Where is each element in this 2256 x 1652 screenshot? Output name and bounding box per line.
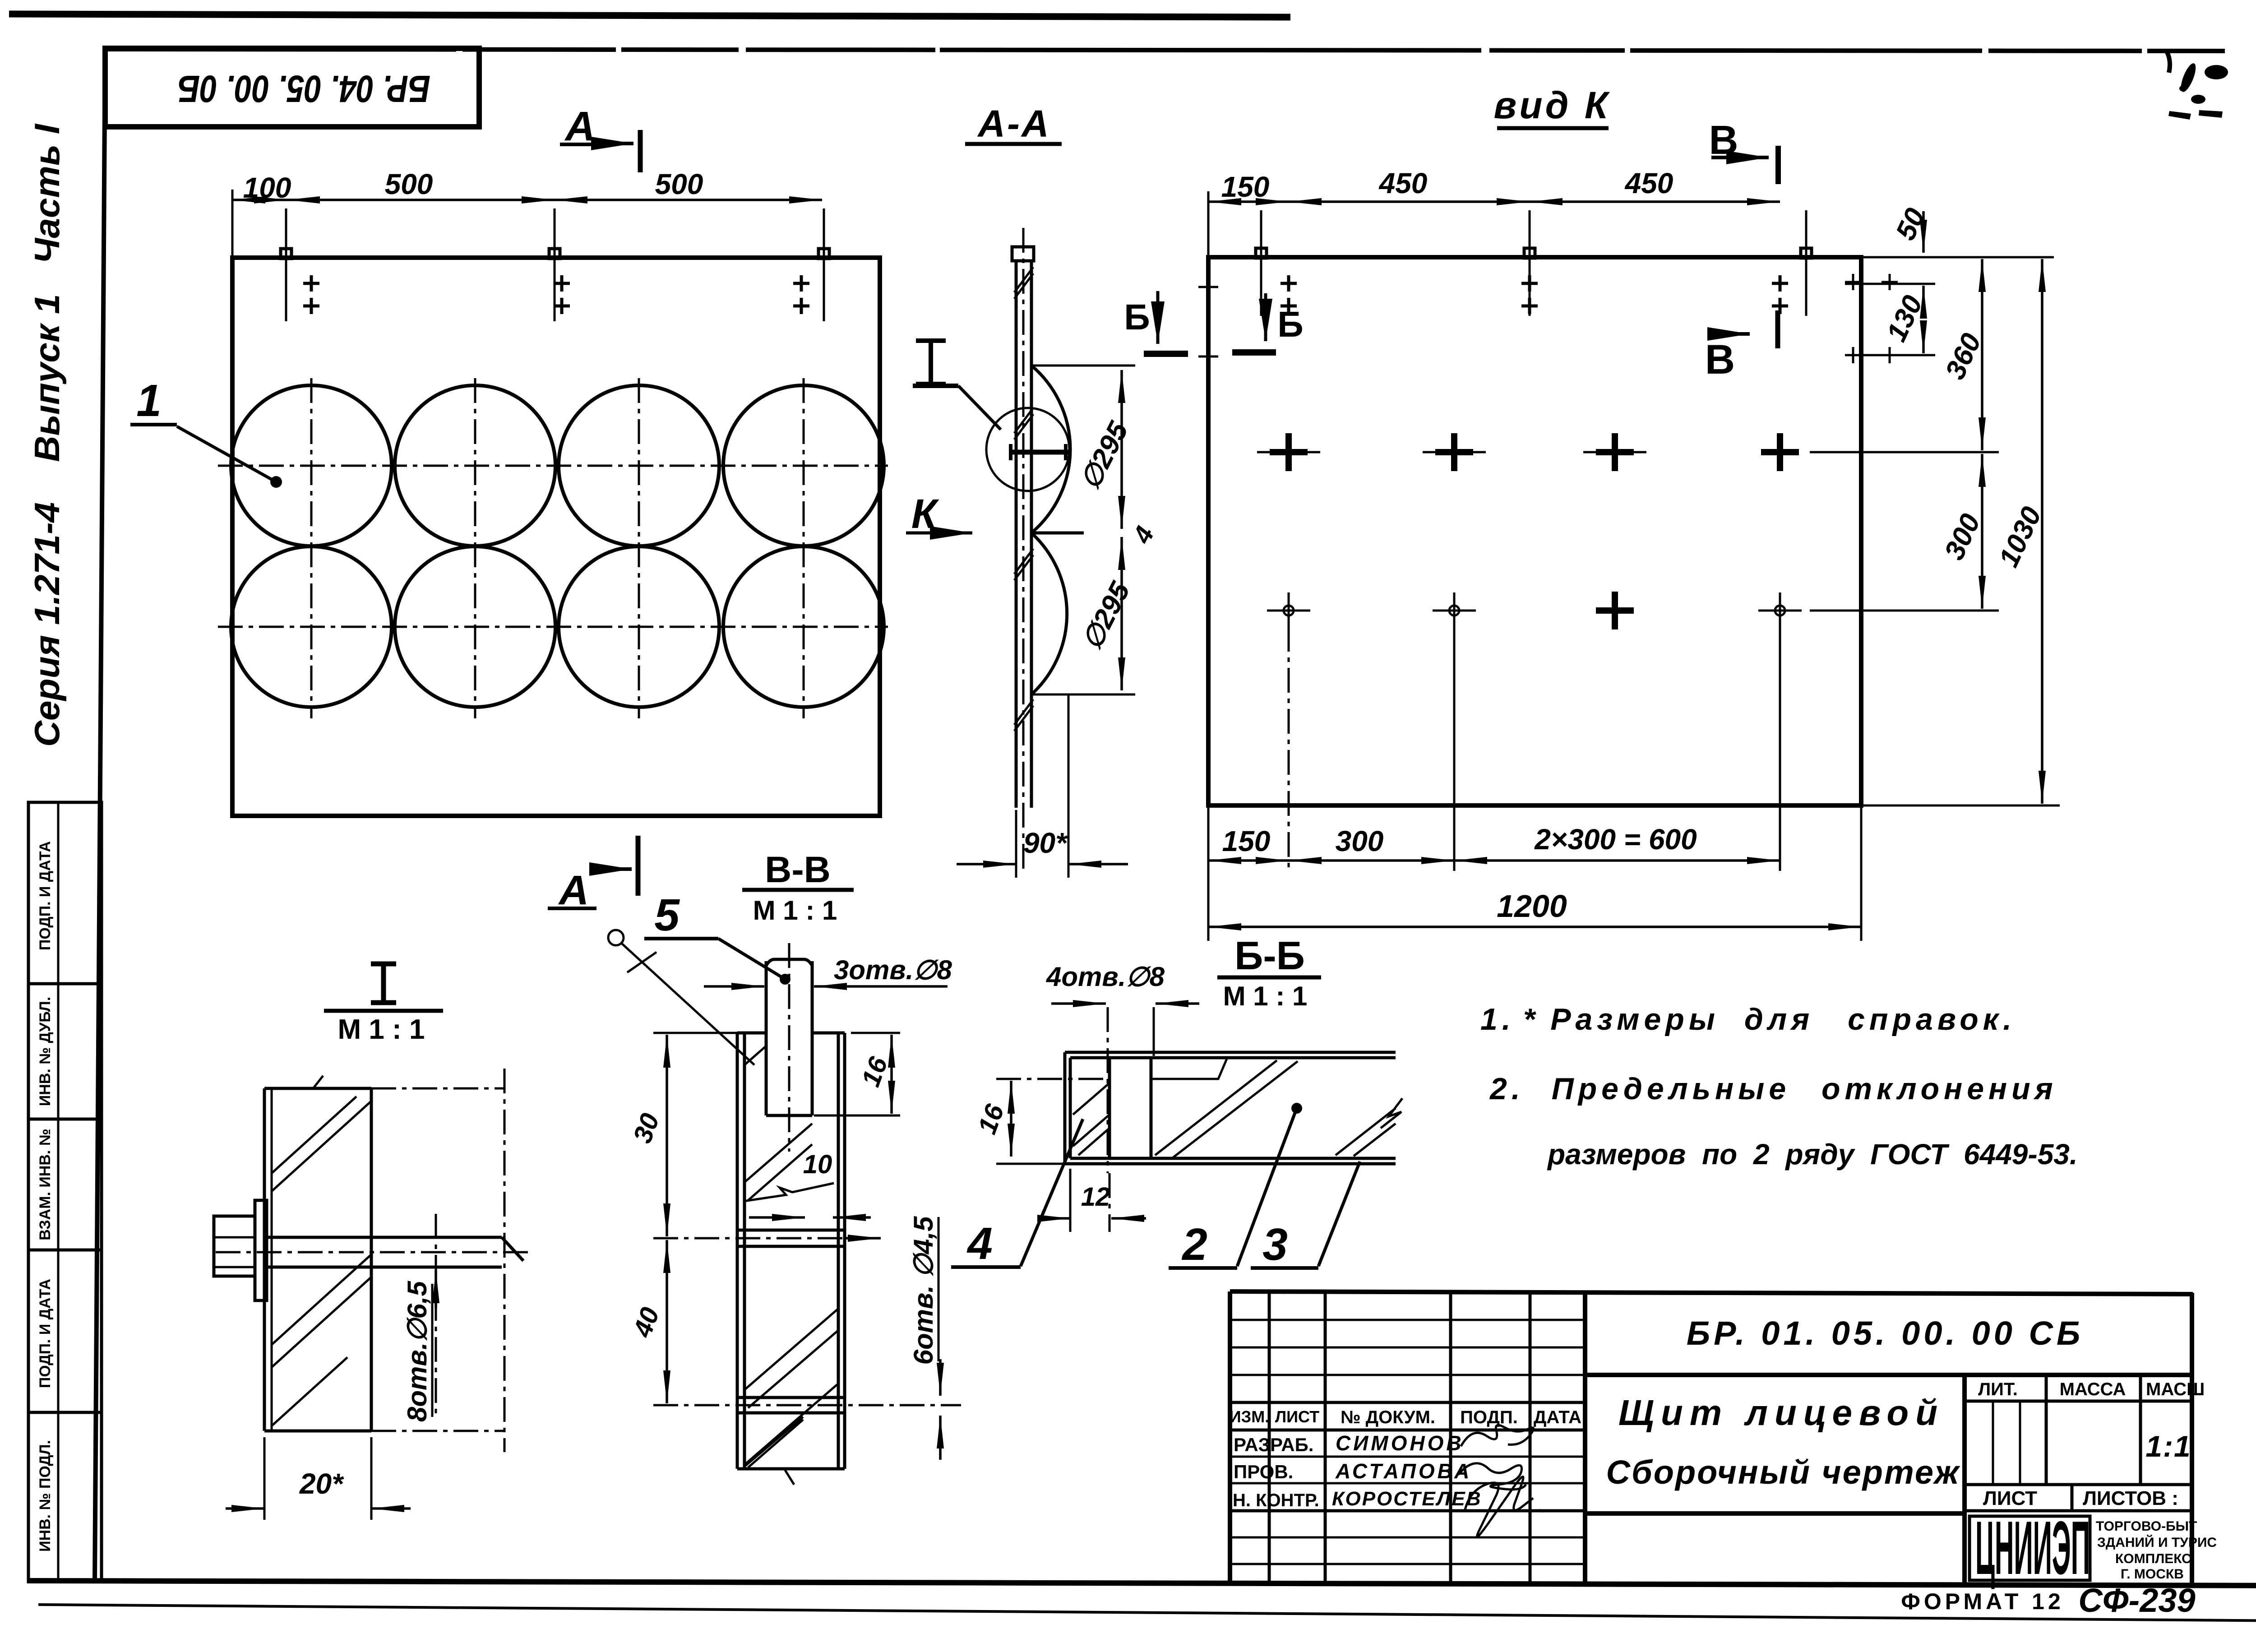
extension line left <box>231 190 234 258</box>
item 5 underline <box>644 937 718 940</box>
plate centerline <box>1022 228 1025 871</box>
svg-text:ПОДП. И ДАТА: ПОДП. И ДАТА <box>37 1279 54 1388</box>
margin table column divider <box>57 802 60 1582</box>
panel outline <box>232 258 880 816</box>
svg-text:6отв. ∅4,5: 6отв. ∅4,5 <box>908 1216 938 1365</box>
plate left face <box>1015 261 1018 808</box>
dia 295 text 1 <box>1074 416 1135 495</box>
circle r2c3 <box>559 546 719 707</box>
hole cross r2c4 <box>1758 592 1802 629</box>
tab centerline 2 <box>1529 210 1531 316</box>
board top tick <box>313 1076 323 1088</box>
row1 centerline far extension <box>1810 451 1999 453</box>
bottom extension col1 edge <box>1207 805 1210 941</box>
stud right wall <box>811 961 814 1115</box>
extension down col1 <box>1288 627 1290 871</box>
plate hatch tick 1 <box>1014 267 1033 299</box>
4otv dim arrows <box>1051 1002 1106 1005</box>
svg-text:В-В: В-В <box>765 849 831 890</box>
bar bottom tick <box>785 1470 794 1485</box>
paper bottom edge line <box>38 1605 2256 1621</box>
plate hatch tick 4 <box>1014 699 1033 731</box>
bar left wall <box>737 1033 744 1469</box>
detail I leader <box>913 384 958 388</box>
hatch below batten2 <box>744 1384 838 1467</box>
line under doc number <box>1585 1373 2193 1377</box>
svg-text:СФ-239: СФ-239 <box>2078 1582 2195 1619</box>
sphere arc 1 <box>1031 366 1070 533</box>
svg-text:3: 3 <box>1262 1219 1288 1270</box>
svg-text:размеров по 2 ряду ГОСТ 6449-5: размеров по 2 ряду ГОСТ 6449-53. <box>1547 1138 2078 1171</box>
horizontal centerline row 2 <box>218 626 888 628</box>
margin label podp i data 2 <box>37 1279 54 1388</box>
svg-text:МАСШ: МАСШ <box>2146 1379 2205 1399</box>
tab 2 <box>1524 248 1535 258</box>
title underline <box>965 142 1062 146</box>
circle r1c4 <box>723 385 884 546</box>
svg-text:А: А <box>558 867 589 913</box>
bolt shaft break <box>502 1237 523 1261</box>
dim 16b text <box>972 1100 1010 1138</box>
svg-text:А-А: А-А <box>977 102 1050 145</box>
dim 50 arrow <box>1922 211 1925 253</box>
svg-text:ЗДАНИЙ И ТУРИС: ЗДАНИЙ И ТУРИС <box>2097 1535 2217 1550</box>
stud left wall <box>765 961 768 1115</box>
svg-text:500: 500 <box>655 168 703 200</box>
extension down col4 <box>1779 627 1781 871</box>
tab 3 <box>1801 248 1812 258</box>
top-left stamp box <box>105 48 479 127</box>
svg-text:ЛИСТОВ :: ЛИСТОВ : <box>2083 1487 2178 1509</box>
dim 1200 line <box>1208 925 1861 928</box>
svg-text:150: 150 <box>1221 171 1270 203</box>
top dim line 150/450/450 <box>1208 200 1289 203</box>
cross pair 1 <box>303 275 319 314</box>
margin stamp table <box>28 802 102 1582</box>
stud top <box>766 959 812 966</box>
dim 1030 line <box>2041 259 2043 804</box>
batten 2 lines <box>737 1397 845 1413</box>
svg-text:90*: 90* <box>1023 827 1068 859</box>
edge cross right top <box>1845 274 1861 290</box>
edge cross outer low <box>1882 347 1898 363</box>
board inner face <box>370 1088 373 1431</box>
svg-text:БР. 04. 05. 00. 0Б: БР. 04. 05. 00. 0Б <box>178 68 430 110</box>
plate right face <box>1030 261 1033 808</box>
line under title name <box>1585 1511 1965 1516</box>
stud bottom <box>766 1114 812 1117</box>
bar hatch main <box>1155 1060 1396 1157</box>
arc bottom extension <box>1031 694 1135 696</box>
mounting tab 2 <box>549 249 560 259</box>
item 4 underline <box>951 1265 1021 1269</box>
circle r1c3 <box>559 385 719 546</box>
svg-text:20*: 20* <box>299 1467 344 1500</box>
plate hatch tick 3 <box>1014 549 1033 580</box>
svg-text:вид К: вид К <box>1494 84 1611 126</box>
svg-text:ПОДП. И ДАТА: ПОДП. И ДАТА <box>37 841 54 950</box>
hole cross r1c4 <box>1761 433 1799 471</box>
gap 4 label <box>1127 522 1160 548</box>
svg-text:300: 300 <box>1336 825 1384 857</box>
svg-text:4: 4 <box>966 1218 993 1269</box>
paper top edge scan line <box>9 14 1290 17</box>
plate top cap <box>1012 247 1034 261</box>
item 2 leader <box>1237 1108 1297 1266</box>
cross pair k2 <box>1521 275 1538 314</box>
mounting tab 3 <box>818 249 829 259</box>
dim 6otv label <box>908 1216 938 1365</box>
svg-text:ТОРГОВО-БЫТ: ТОРГОВО-БЫТ <box>2096 1519 2197 1534</box>
frame left border <box>95 47 105 1582</box>
dim 50 text <box>1890 204 1932 245</box>
detail I label underline <box>324 1009 443 1013</box>
dim 40 line <box>666 1240 668 1403</box>
svg-text:А: А <box>564 103 595 149</box>
svg-text:ИНВ. № ПОДЛ.: ИНВ. № ПОДЛ. <box>37 1440 54 1552</box>
hole cross r2c1 <box>1267 592 1310 629</box>
glue mark cross <box>627 952 656 972</box>
item 4 leader <box>1021 1119 1083 1266</box>
svg-text:БР. 01. 05. 00. 00 СБ: БР. 01. 05. 00. 00 СБ <box>1687 1314 2084 1352</box>
bolt washer <box>255 1200 267 1300</box>
dim 30 line <box>666 1035 668 1236</box>
frame bottom border <box>27 1581 2256 1586</box>
svg-text:1200: 1200 <box>1497 888 1567 924</box>
dim 20 extension lines <box>264 1437 266 1520</box>
dim 16 text <box>856 1053 893 1091</box>
bar left end <box>1065 1052 1070 1164</box>
hole centerline <box>435 1214 437 1417</box>
margin table row dividers <box>28 982 102 986</box>
bolt shaft top <box>268 1236 502 1239</box>
dim 20 arrows <box>226 1507 264 1510</box>
board bottom edge <box>264 1430 371 1433</box>
svg-text:1:1: 1:1 <box>2145 1430 2191 1463</box>
svg-text:8отв.∅6,5: 8отв.∅6,5 <box>402 1280 432 1422</box>
wavy leader 10 <box>744 1183 834 1201</box>
svg-text:Б: Б <box>1277 304 1304 344</box>
lit subcell dividers <box>1992 1401 1994 1485</box>
item 1 leader <box>177 426 276 482</box>
signatures <box>1461 1425 1534 1446</box>
tab centerline 1 <box>1260 210 1262 316</box>
svg-text:4отв.∅8: 4отв.∅8 <box>1046 962 1165 992</box>
cross pair k3 <box>1772 275 1788 314</box>
dim 90 extension left <box>1015 810 1017 878</box>
dim 12 ext lines <box>1069 1169 1072 1232</box>
horizontal centerline row 1 <box>218 465 888 467</box>
dim 12 arrows <box>1038 1217 1070 1220</box>
svg-text:СИМОНОВ: СИМОНОВ <box>1336 1431 1464 1455</box>
dim 1030 text <box>1993 502 2048 572</box>
dim 40 text <box>628 1304 665 1342</box>
margin label podp i data 1 <box>37 841 54 950</box>
logo letters <box>1975 1505 2090 1590</box>
svg-text:450: 450 <box>1624 167 1674 199</box>
dim 130 line <box>1922 286 1925 316</box>
hole cross r1c1 <box>1270 433 1308 471</box>
bar hatch upper <box>744 1046 812 1200</box>
dim 300 text <box>1938 509 1986 565</box>
title underline <box>742 888 854 892</box>
dim 130 text <box>1881 291 1928 346</box>
title block top border <box>1230 1291 2193 1294</box>
plate outline <box>1208 257 1861 805</box>
circle r2c1 <box>231 546 392 707</box>
tab centerline 3 <box>1805 210 1808 316</box>
hole cross r1c2 <box>1435 433 1473 471</box>
item 1 underline <box>130 423 177 426</box>
dim 16b line <box>1010 1081 1012 1157</box>
title block right border <box>2190 1293 2194 1584</box>
bolt shaft bottom <box>268 1266 502 1269</box>
glue mark leader <box>608 930 624 945</box>
margin label inv n dubl <box>37 997 54 1106</box>
svg-text:М 1 : 1: М 1 : 1 <box>753 895 837 925</box>
arc top extension <box>1031 365 1135 367</box>
svg-text:5: 5 <box>654 890 680 940</box>
circle r1c1 <box>231 385 392 546</box>
bar bottom edge <box>737 1467 845 1471</box>
top dim extension left <box>1207 191 1210 257</box>
extension down col2 <box>1453 627 1456 871</box>
lit massa massh header row line <box>1965 1400 2192 1403</box>
left table col lines <box>1268 1291 1271 1583</box>
item 3 leader <box>1318 1161 1360 1266</box>
edge cross outer top <box>1882 274 1898 290</box>
mounting tab 1 <box>281 249 291 259</box>
svg-text:12: 12 <box>1081 1182 1110 1212</box>
right centerline <box>504 1069 506 1452</box>
extension right edge down <box>1860 805 1863 941</box>
ref line 629 <box>1845 283 1935 285</box>
svg-text:Щит лицевой: Щит лицевой <box>1618 1393 1944 1433</box>
bolt axis centerline <box>216 1251 530 1254</box>
svg-text:Г. МОСКВ: Г. МОСКВ <box>2121 1567 2184 1582</box>
vertical centerline col 3 <box>638 378 640 718</box>
list listov divider <box>2071 1485 2074 1511</box>
batten 1 centerline <box>653 1237 875 1240</box>
bar right wall <box>838 1033 845 1469</box>
bar bottom edge <box>1065 1158 1396 1164</box>
dim 10 arrows <box>749 1216 805 1219</box>
logo box <box>1969 1516 2090 1580</box>
svg-text:2.Предельные отклонения: 2.Предельные отклонения <box>1489 1072 2057 1106</box>
bar hatch lower <box>744 1309 838 1467</box>
svg-text:ФОРМАТ 12: ФОРМАТ 12 <box>1901 1589 2064 1614</box>
bolt bar <box>1010 450 1068 455</box>
left strip hatch <box>1073 1083 1110 1155</box>
svg-text:ПОДП.: ПОДП. <box>1460 1407 1518 1427</box>
bar right break <box>1381 1098 1402 1128</box>
hole dim arrow <box>435 1270 437 1309</box>
svg-text:М 1 : 1: М 1 : 1 <box>1223 981 1308 1011</box>
dim 16 ext line <box>996 1078 1110 1080</box>
svg-text:10: 10 <box>803 1150 832 1179</box>
right section left border <box>1962 1375 1967 1583</box>
hole block left <box>1108 1058 1111 1158</box>
dim 16 line <box>890 1035 893 1114</box>
plate hatch tick 2 <box>1014 408 1033 440</box>
svg-text:ЛИТ.: ЛИТ. <box>1978 1379 2018 1399</box>
item 5 leader <box>718 939 785 979</box>
margin label inv n podl <box>37 1440 54 1552</box>
cross pair 2 <box>554 275 570 314</box>
cusp line <box>1031 532 1084 535</box>
left table row lines <box>1230 1319 1585 1321</box>
item 2 underline <box>1169 1266 1237 1270</box>
bar top edge <box>1065 1052 1396 1058</box>
margin label vzam inv <box>37 1129 54 1240</box>
tab centerline 3 <box>823 208 825 321</box>
list row bottom <box>1965 1509 2192 1513</box>
hole cross r2c2 <box>1433 592 1476 629</box>
stud centerline <box>788 943 791 1152</box>
dim 90 arrows <box>957 863 1016 865</box>
cross pair 3 <box>793 275 809 314</box>
board top edge <box>264 1087 371 1090</box>
board hatch <box>272 1097 371 1426</box>
svg-text:1.*Размеры для справок.: 1.*Размеры для справок. <box>1480 1002 2016 1037</box>
hole step line <box>1151 1058 1227 1079</box>
cross pair k1 <box>1281 275 1297 314</box>
stud dim arrows <box>704 985 764 988</box>
svg-text:ЛИСТ: ЛИСТ <box>1275 1407 1319 1426</box>
svg-text:2×300 = 600: 2×300 = 600 <box>1534 823 1697 856</box>
dim 360 line <box>1981 259 1983 450</box>
edge cross right low <box>1845 347 1861 363</box>
tab centerline 1 <box>285 208 287 321</box>
dim 300 line <box>1981 454 1983 609</box>
dim 30 text <box>628 1110 665 1147</box>
svg-text:ДАТА: ДАТА <box>1534 1407 1581 1427</box>
vertical centerline col 2 <box>474 378 476 718</box>
batten 1 lines <box>737 1230 845 1246</box>
view K title underline <box>1497 126 1609 130</box>
frame top border <box>104 49 2225 51</box>
svg-text:К: К <box>911 491 939 537</box>
dim 90 extension right <box>1068 694 1070 878</box>
left table outer left <box>1228 1291 1232 1583</box>
bolt head <box>214 1216 255 1276</box>
bottom edge extension dashed <box>371 1430 504 1432</box>
lit massa divider <box>2045 1375 2048 1485</box>
detail I label <box>371 964 396 1003</box>
svg-text:ВЗАМ. ИНВ. №: ВЗАМ. ИНВ. № <box>37 1129 54 1240</box>
svg-text:3отв.∅8: 3отв.∅8 <box>834 955 952 985</box>
svg-text:РАЗРАБ.: РАЗРАБ. <box>1234 1434 1313 1455</box>
edge cross left top <box>1198 277 1218 297</box>
svg-text:МАССА: МАССА <box>2060 1379 2126 1399</box>
plate bottom extension right <box>1862 805 2060 807</box>
hole centerline vertical <box>1107 1007 1109 1173</box>
list row line <box>1965 1483 2192 1486</box>
big cell divider <box>1583 1291 1587 1583</box>
svg-text:500: 500 <box>385 168 433 200</box>
circle r2c4 <box>723 546 884 707</box>
sphere arc 2 <box>1031 533 1067 694</box>
item 3 underline <box>1251 1266 1318 1270</box>
vertical centerline col 1 <box>310 378 313 718</box>
svg-text:2: 2 <box>1181 1219 1207 1270</box>
circle r1c2 <box>395 385 555 546</box>
hole block right <box>1150 1058 1153 1158</box>
svg-text:Б: Б <box>1124 297 1150 337</box>
hole cross r1c3 <box>1596 433 1634 471</box>
svg-text:ИНВ. № ДУБЛ.: ИНВ. № ДУБЛ. <box>37 997 54 1106</box>
bolt head lines <box>214 1237 255 1267</box>
svg-text:150: 150 <box>1222 825 1271 857</box>
circle r2c2 <box>395 546 555 707</box>
dia 295 dim line 1 <box>1120 370 1123 529</box>
dim 30 ext line <box>653 1032 737 1034</box>
svg-text:КОМПЛЕКС: КОМПЛЕКС <box>2115 1551 2191 1566</box>
tab centerline 2 <box>554 208 556 321</box>
svg-text:ЦНИИЭП: ЦНИИЭП <box>1975 1505 2090 1590</box>
vertical centerline col 4 <box>803 378 805 718</box>
top right smudge <box>2164 50 2228 120</box>
hole cross r2c3 <box>1596 592 1634 629</box>
bottom edge ext left <box>996 1163 1065 1165</box>
board outer face <box>263 1088 266 1431</box>
svg-text:ПРОВ.: ПРОВ. <box>1234 1461 1293 1482</box>
batten 2 centerline <box>653 1404 961 1407</box>
bar top edges <box>737 1032 845 1035</box>
title underline <box>1217 976 1321 980</box>
dia 295 dim line 2 <box>1120 537 1123 690</box>
stamp text (upside down doc number) <box>178 68 430 110</box>
svg-text:450: 450 <box>1378 167 1428 199</box>
ref line 787 <box>1845 354 1935 356</box>
plate top extension right <box>1862 256 2054 259</box>
svg-text:М 1 : 1: М 1 : 1 <box>338 1014 425 1045</box>
hole label 8otv <box>402 1280 432 1422</box>
left margin series text <box>27 124 67 747</box>
top edge extension dashed <box>371 1087 504 1090</box>
svg-text:В: В <box>1705 337 1735 383</box>
svg-text:1: 1 <box>136 375 162 426</box>
tab 1 <box>1256 248 1267 258</box>
detail circle I <box>986 408 1069 491</box>
svg-text:АСТАПОВА: АСТАПОВА <box>1335 1459 1472 1483</box>
svg-text:Сборочный чертеж: Сборочный чертеж <box>1606 1453 1960 1491</box>
dim 360 text <box>1939 329 1987 384</box>
dia 295 text 2 <box>1076 577 1137 655</box>
row1 centerline extension <box>1812 451 1886 453</box>
row2 centerline extension <box>1812 610 1886 612</box>
dim 6otv arrows <box>939 1359 942 1396</box>
svg-text:Серия 1.271-4 Выпуск 1 Ча: Серия 1.271-4 Выпуск 1 Часть I <box>27 124 67 747</box>
svg-text:ИЗМ.: ИЗМ. <box>1230 1407 1269 1426</box>
svg-text:100: 100 <box>243 171 291 204</box>
svg-text:Б-Б: Б-Б <box>1234 933 1305 978</box>
bottom dim line 150/300/600 <box>1208 859 1289 862</box>
svg-text:КОРОСТЕЛЕВ: КОРОСТЕЛЕВ <box>1332 1488 1482 1510</box>
svg-text:Н. КОНТР.: Н. КОНТР. <box>1233 1490 1319 1510</box>
dim 16 ext lines <box>851 1032 900 1034</box>
massa massh divider <box>2139 1375 2142 1485</box>
dimension line 100/500/500 <box>232 199 287 201</box>
hole edge extension <box>1153 1007 1155 1056</box>
edge cross left low <box>1198 347 1218 366</box>
row2 centerline far extension <box>1810 610 1999 612</box>
svg-text:№ ДОКУМ.: № ДОКУМ. <box>1341 1407 1435 1427</box>
detail I mark <box>916 341 946 384</box>
